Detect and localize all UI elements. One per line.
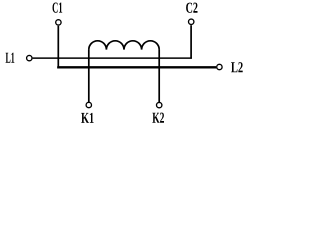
- label L1: [6, 53, 15, 63]
- wire primary top line from L1: [33, 57, 192, 59]
- label K2: [152, 113, 164, 123]
- inductor secondary winding coil: [89, 41, 159, 50]
- wire C1 lead: [57, 26, 59, 68]
- terminal C1: [56, 20, 61, 25]
- label K1: [81, 113, 93, 123]
- terminal L1: [27, 55, 32, 60]
- label L2: [231, 62, 243, 72]
- label C2: [186, 3, 197, 13]
- wire primary bottom line to L2: [58, 66, 216, 67]
- terminal L2: [217, 64, 222, 69]
- terminal K2: [157, 102, 162, 107]
- terminal C2: [189, 19, 194, 24]
- wire K2 lead: [158, 50, 160, 103]
- wire K1 lead: [88, 50, 90, 103]
- terminal K1: [86, 102, 91, 107]
- label C1: [53, 2, 63, 12]
- wire C2 lead: [190, 25, 192, 58]
